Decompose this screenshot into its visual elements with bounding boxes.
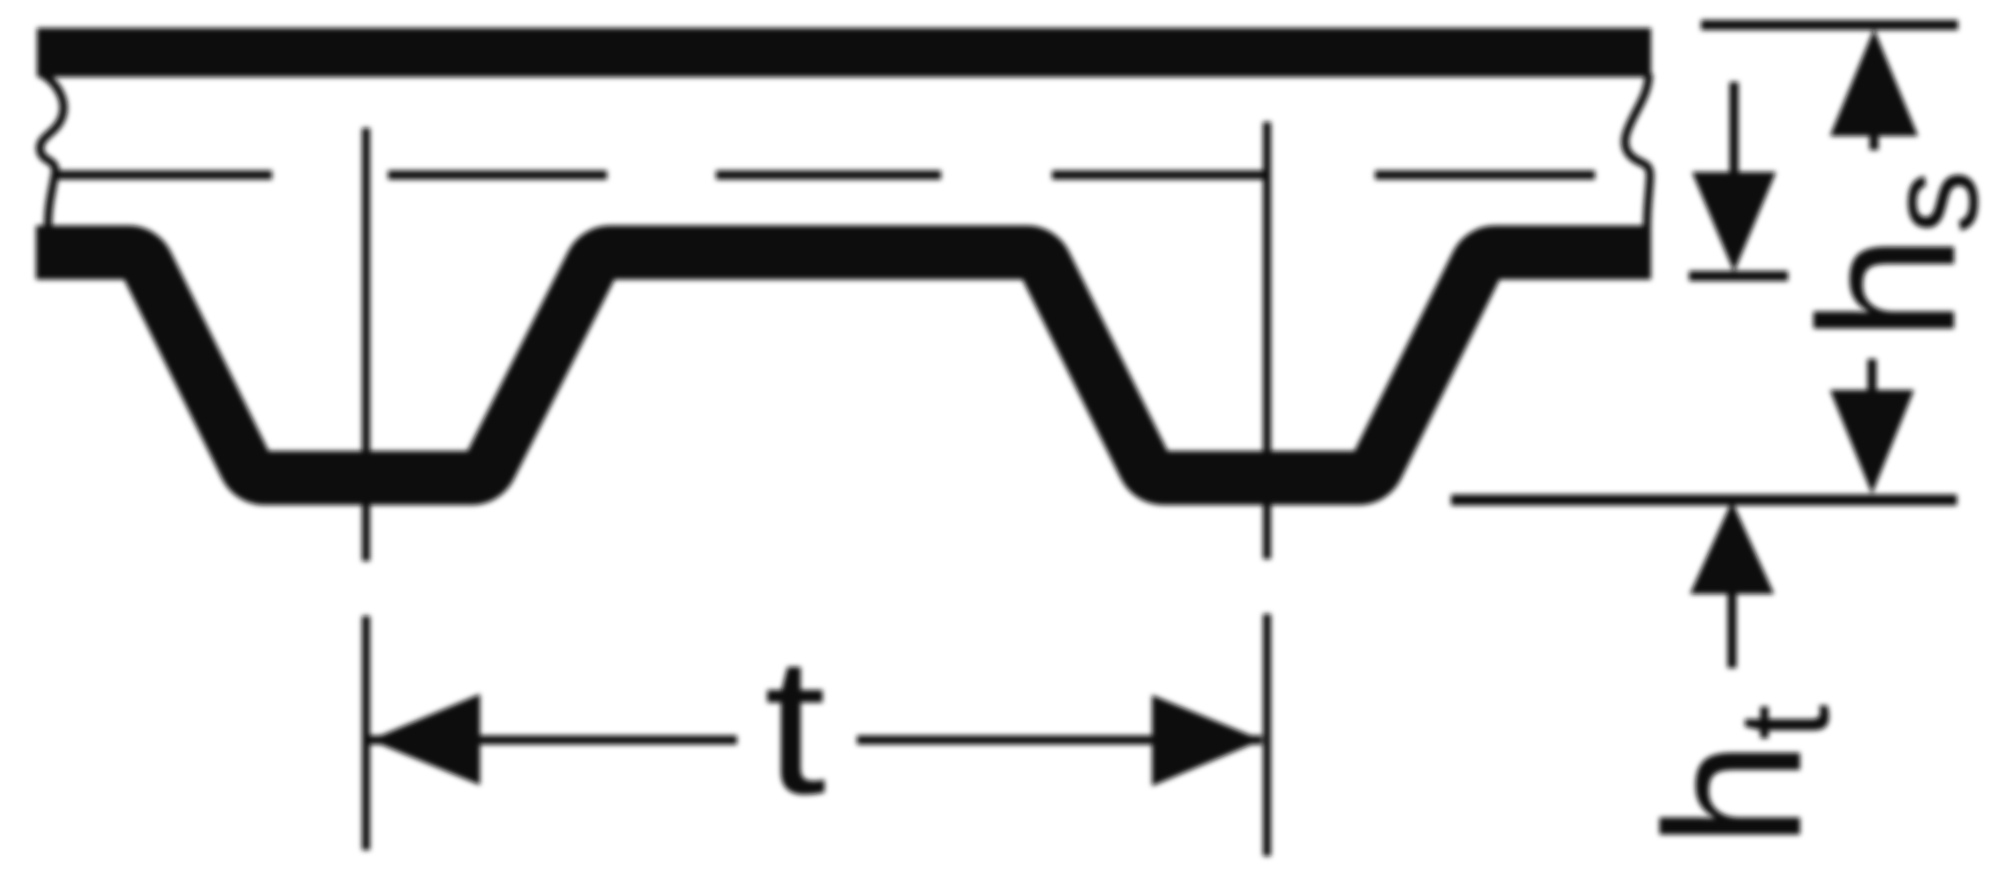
pitch line dashes (57, 171, 1595, 180)
svg-text:t: t (764, 617, 826, 835)
root level tick (1689, 271, 1788, 281)
hs top extension line (1701, 20, 1958, 30)
ht down arrow (1730, 82, 1739, 176)
center line tooth 1 (362, 128, 370, 850)
ht up arrow (1690, 501, 1774, 594)
hs up arrow (1830, 29, 1918, 136)
t dimension line (370, 736, 1262, 745)
tooth profile (36, 253, 1651, 479)
belt back bar (37, 28, 1651, 77)
t right arrowhead (1152, 695, 1262, 786)
tooth tip extension line (1451, 495, 1957, 506)
t left arrowhead (370, 694, 480, 785)
right break squiggle (1625, 74, 1650, 228)
hs down arrow (1868, 359, 1877, 392)
left break squiggle (40, 74, 64, 228)
center line tooth 2 (1263, 122, 1271, 856)
